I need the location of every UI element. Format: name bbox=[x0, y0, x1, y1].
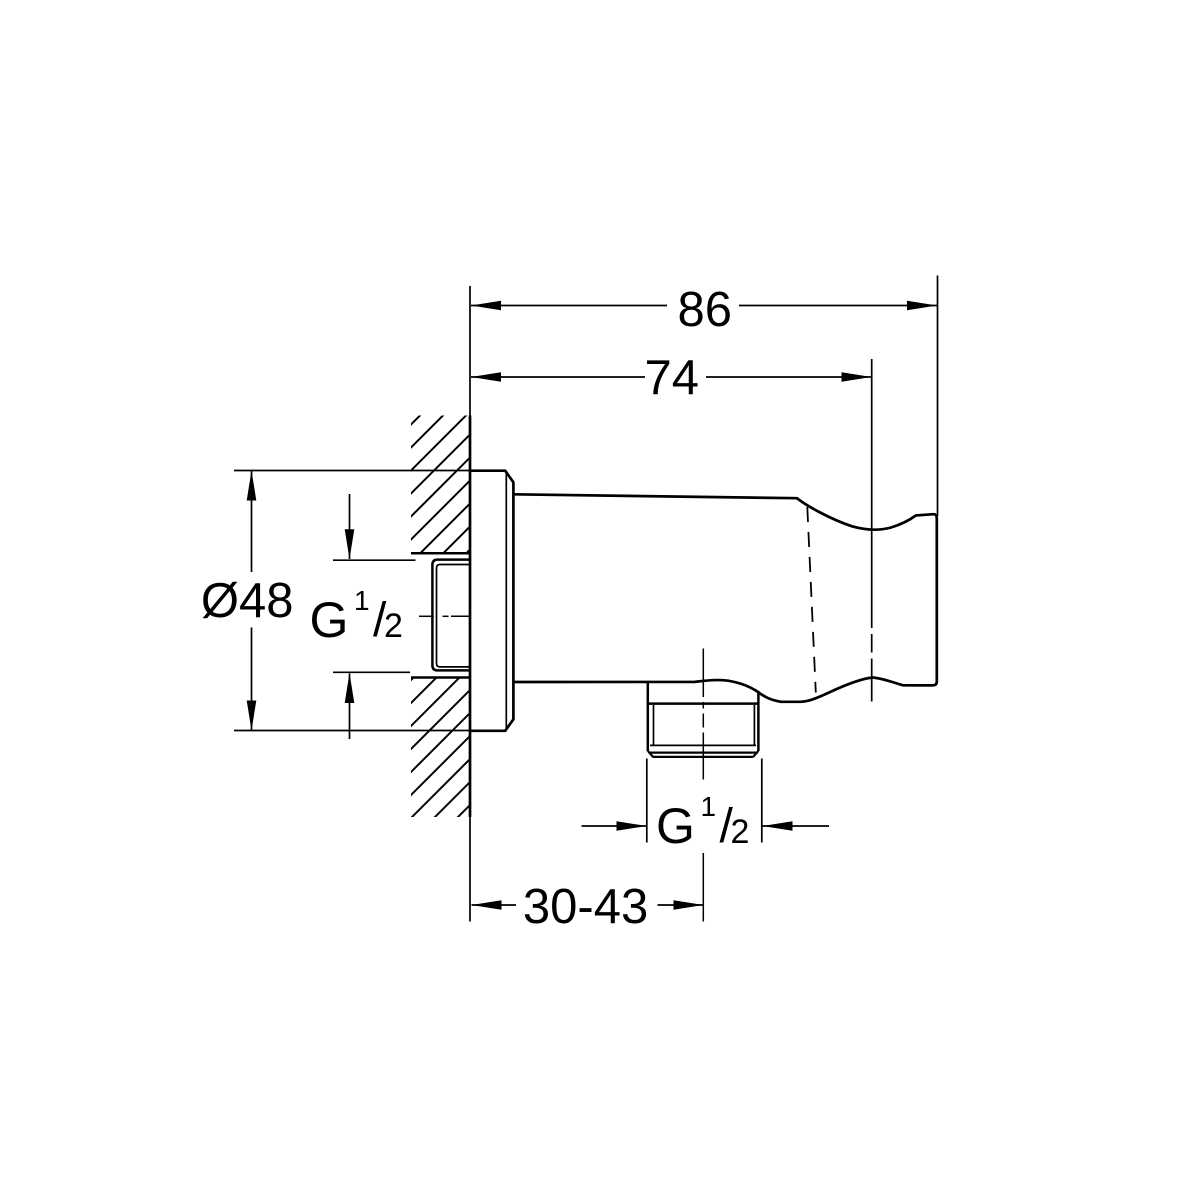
inlet thread outer contour bbox=[432, 560, 470, 671]
wall hole top ledge bbox=[411, 552, 469, 555]
svg-text:74: 74 bbox=[644, 351, 699, 405]
flange outline bbox=[470, 471, 513, 731]
outlet nipple left outer edge bbox=[647, 683, 650, 752]
svg-text:1: 1 bbox=[354, 585, 370, 616]
body outline with holder bbox=[513, 494, 936, 702]
dimension 86 bbox=[471, 276, 938, 517]
holder hidden edge (dashed) bbox=[807, 507, 816, 693]
svg-text:Ø48: Ø48 bbox=[201, 574, 294, 628]
outlet nipple end chamfer and face bbox=[648, 751, 759, 757]
outlet nipple thread root lines bbox=[650, 705, 756, 745]
outlet axis centerline bbox=[702, 649, 704, 922]
dimension diameter 48 bbox=[201, 471, 470, 731]
wall face line bbox=[469, 286, 471, 922]
wall hatching lower bbox=[366, 585, 506, 909]
svg-text:30-43: 30-43 bbox=[523, 880, 648, 934]
inlet axis centerline bbox=[419, 615, 470, 617]
flange face edge line bbox=[505, 472, 507, 731]
wall hatching upper bbox=[366, 330, 506, 677]
outlet nipple shoulder line bbox=[647, 702, 759, 705]
dimension 30-43 bbox=[472, 880, 704, 934]
outlet nipple right outer edge bbox=[757, 692, 760, 751]
dimension G1/2 inlet thread bbox=[310, 494, 416, 739]
74 extension centerline through holder bbox=[871, 359, 873, 702]
svg-text:86: 86 bbox=[677, 283, 732, 337]
dimension G1/2 outlet thread bbox=[582, 759, 830, 855]
wall hole bottom ledge bbox=[411, 676, 469, 679]
inlet thread root contour bbox=[437, 565, 471, 667]
svg-text:2: 2 bbox=[384, 607, 403, 645]
svg-text:G: G bbox=[310, 592, 349, 648]
dimension 74 bbox=[471, 351, 872, 405]
